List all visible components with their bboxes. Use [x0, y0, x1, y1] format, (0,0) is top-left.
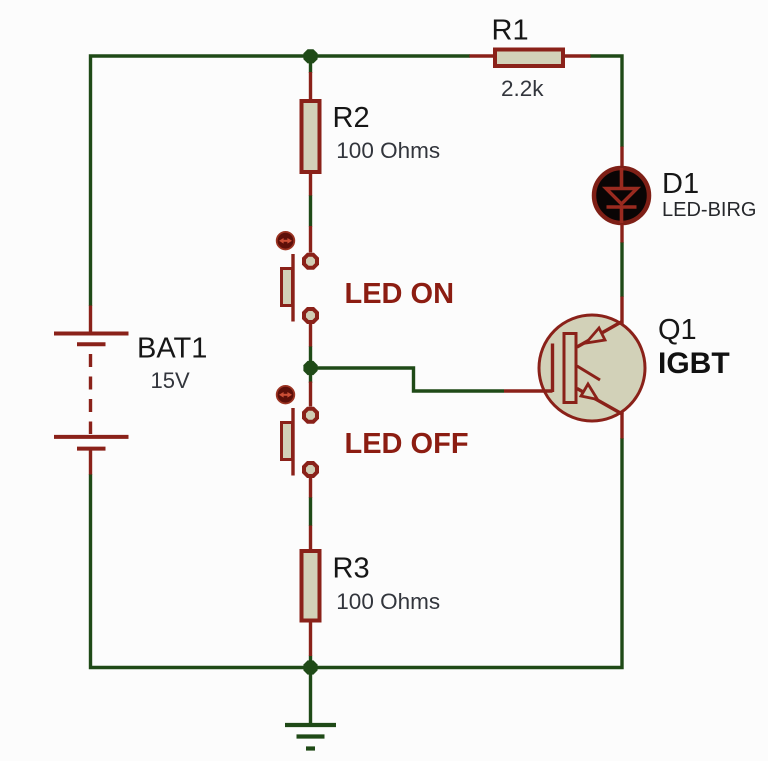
node: gate branch junction [303, 361, 317, 375]
button SW2 terminal top [302, 407, 319, 424]
button SW2 plunger bar [291, 408, 294, 476]
svg-text:100 Ohms: 100 Ohms [336, 138, 440, 163]
Q1 body contact line [577, 366, 600, 380]
value LED-BIRG [662, 199, 756, 221]
svg-text:R2: R2 [333, 102, 370, 134]
button SW2 cap [282, 423, 293, 460]
ground [285, 668, 336, 749]
value 15V [151, 368, 190, 393]
wire: top junction to R2 [309, 56, 312, 73]
label R1 [492, 15, 529, 47]
button SW2 terminal bottom [302, 461, 319, 478]
node: top junction [303, 49, 317, 63]
resistor R1 [495, 50, 563, 67]
label R3 [333, 553, 370, 585]
wire: Q1 emitter down right rail to bottom rail to battery- [91, 438, 623, 668]
button SW1 plunger bar [291, 254, 294, 322]
svg-text:15V: 15V [151, 368, 190, 393]
wire: LED ON button to middle junction [309, 346, 312, 368]
button SW1 terminal top [302, 253, 319, 270]
svg-text:D1: D1 [662, 168, 699, 200]
button SW1 terminal bottom [302, 307, 319, 324]
LED D1 pin bottom [620, 224, 623, 243]
net label LED OFF [345, 428, 469, 460]
value 2.2k [501, 76, 544, 101]
button SW1 pin bottom [309, 324, 312, 347]
svg-text:LED OFF: LED OFF [345, 428, 469, 460]
battery BAT1 pin bottom [89, 450, 92, 475]
value 100 Ohms (R3) [336, 589, 440, 614]
svg-text:R1: R1 [492, 15, 529, 47]
battery BAT1 pin top [89, 306, 92, 333]
resistor R3 pin top [309, 526, 312, 552]
Q1 emitter arrow [581, 384, 598, 400]
net label LED ON [345, 278, 455, 310]
wire: top rail from battery+ to R1 [91, 56, 471, 306]
Q1 collector line [577, 322, 622, 348]
value IGBT [658, 347, 730, 380]
svg-text:100 Ohms: 100 Ohms [336, 589, 440, 614]
LED D1 [594, 168, 649, 223]
transistor Q1 (IGBT) [504, 297, 645, 439]
button SW2 actuator ball [277, 386, 295, 404]
Q1 collector pin [620, 297, 623, 325]
push button LED ON [277, 226, 319, 347]
push button LED OFF [277, 382, 319, 498]
Q1 emitter pin [620, 412, 623, 439]
Q1 gate bar [551, 344, 554, 393]
wire: middle junction to Q1 gate [311, 368, 505, 391]
node: ground junction [303, 660, 317, 674]
button SW1 actuator ball [277, 232, 295, 250]
resistor R2 pin top [309, 72, 312, 100]
Q1 gate pin [504, 389, 553, 392]
resistor R2 pin bottom [309, 173, 312, 196]
wire: R2 to LED ON button [309, 195, 312, 227]
button SW2 pin top [309, 382, 312, 407]
svg-text:LED-BIRG: LED-BIRG [662, 199, 756, 221]
wire: middle junction to LED OFF button [309, 368, 312, 383]
resistor R1 pin left [470, 54, 495, 57]
battery BAT1 [54, 334, 129, 449]
svg-text:IGBT: IGBT [658, 347, 730, 380]
svg-text:BAT1: BAT1 [137, 333, 207, 365]
svg-text:R3: R3 [333, 553, 370, 585]
wire: D1 cathode to Q1 collector [620, 242, 623, 297]
wire: R3 to bottom junction [309, 656, 312, 668]
resistor R3 [302, 551, 320, 621]
Q1 collector arrow [586, 328, 605, 343]
svg-text:2.2k: 2.2k [501, 76, 544, 101]
label R2 [333, 102, 370, 134]
wire: LED OFF button to R3 [309, 497, 312, 526]
label BAT1 [137, 333, 207, 365]
Q1 body [539, 315, 645, 421]
label D1 [662, 168, 699, 200]
button SW1 pin top [309, 226, 312, 253]
resistor R1 pin right [564, 54, 591, 57]
value 100 Ohms (R2) [336, 138, 440, 163]
button SW1 cap [282, 269, 293, 306]
Q1 gate plate [564, 334, 576, 403]
label Q1 [658, 314, 697, 346]
resistor R2 [302, 101, 320, 172]
svg-text:Q1: Q1 [658, 314, 697, 346]
resistor R3 pin bottom [309, 621, 312, 656]
Q1 emitter line [577, 389, 623, 415]
svg-text:LED ON: LED ON [345, 278, 455, 310]
LED D1 pin top [620, 147, 623, 168]
wire: R1 to right rail top corner [590, 56, 622, 147]
button SW2 pin bottom [309, 478, 312, 498]
